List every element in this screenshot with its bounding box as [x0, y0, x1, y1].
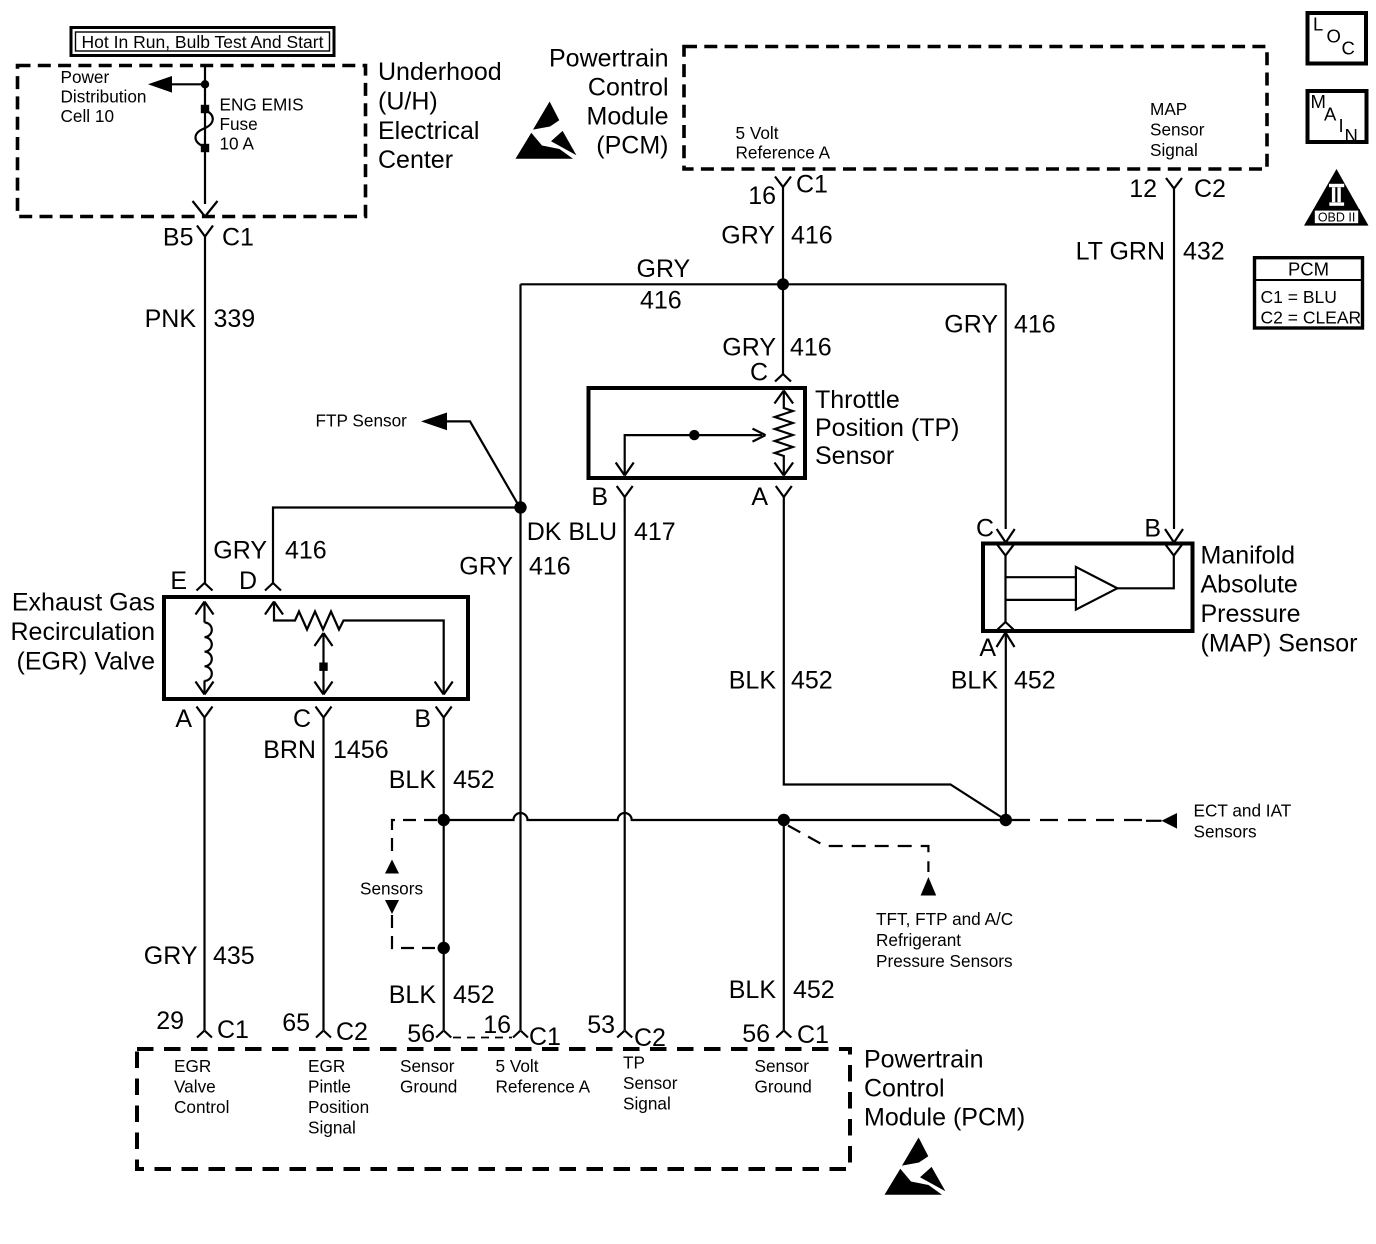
- svg-text:Underhood: Underhood: [378, 58, 502, 86]
- label GRY 416 (5V vertical): [459, 553, 570, 581]
- EGR valve box: [164, 597, 468, 699]
- wire BLK 452 (EGR B to ground bus): [443, 722, 445, 1030]
- dashed tap to ECT and IAT sensors: [1012, 819, 1146, 821]
- connector Y inside MAP pin C: [998, 545, 1014, 622]
- svg-text:A: A: [751, 483, 768, 511]
- svg-text:Reference A: Reference A: [736, 143, 831, 163]
- MAIN box: [1308, 91, 1367, 146]
- label GRY 435: [144, 942, 255, 970]
- svg-text:16: 16: [748, 182, 776, 210]
- connector pin 12 C2: [1129, 175, 1226, 203]
- svg-text:452: 452: [791, 667, 833, 695]
- svg-text:MAP: MAP: [1150, 99, 1187, 119]
- svg-text:ECT and IAT: ECT and IAT: [1194, 801, 1292, 821]
- svg-text:Sensor: Sensor: [623, 1073, 678, 1093]
- svg-text:B: B: [414, 705, 431, 733]
- svg-text:O: O: [1327, 26, 1341, 47]
- label BLK 452 (right pin 56): [729, 976, 835, 1004]
- svg-text:(PCM): (PCM): [596, 132, 668, 160]
- svg-text:ENG EMIS: ENG EMIS: [220, 95, 304, 115]
- connector pin 16 C1: [748, 171, 828, 211]
- label GRY 416 (left rail): [637, 255, 691, 315]
- svg-text:416: 416: [790, 334, 832, 362]
- svg-text:A: A: [979, 634, 996, 662]
- svg-text:TFT, FTP and A/C: TFT, FTP and A/C: [876, 909, 1013, 929]
- wire LT GRN 432 from pin 12 to MAP B: [1173, 193, 1175, 529]
- connector TP pin B: [591, 483, 632, 512]
- junction dot FTP tap: [514, 501, 526, 513]
- TP wiper arm: [616, 429, 766, 476]
- svg-text:Reference A: Reference A: [496, 1077, 591, 1097]
- PCM dashed box (bottom): [137, 1049, 850, 1169]
- LOC box: [1308, 13, 1367, 64]
- connector EGR pin C: [293, 705, 332, 733]
- arrowhead down at U/H box exit: [193, 201, 218, 217]
- svg-text:Position (TP): Position (TP): [815, 414, 959, 442]
- svg-text:Recirculation: Recirculation: [10, 618, 155, 646]
- EGR wiper: [315, 633, 333, 695]
- svg-text:LT GRN: LT GRN: [1076, 238, 1165, 266]
- svg-text:Control: Control: [864, 1075, 945, 1103]
- connector chevron inside MAP pin A: [998, 622, 1014, 630]
- svg-text:452: 452: [793, 976, 835, 1004]
- svg-text:53: 53: [587, 1011, 615, 1039]
- svg-text:Throttle: Throttle: [815, 386, 900, 414]
- label TP Sensor Signal: [623, 1053, 678, 1114]
- ground bus wire with hops: [444, 813, 1007, 820]
- svg-text:Absolute: Absolute: [1201, 571, 1298, 599]
- label LT GRN 432: [1076, 238, 1225, 266]
- svg-text:C1: C1: [222, 224, 254, 252]
- svg-text:Pintle: Pintle: [308, 1077, 351, 1097]
- svg-text:PNK: PNK: [145, 305, 197, 333]
- svg-text:56: 56: [742, 1020, 770, 1048]
- wire BLK 452 (MAP A to bus): [1005, 632, 1007, 820]
- wire TP pin C drop: [782, 284, 784, 374]
- svg-text:C1: C1: [797, 1021, 829, 1049]
- svg-text:Sensor: Sensor: [755, 1056, 810, 1076]
- svg-text:C: C: [976, 515, 994, 543]
- svg-text:GRY: GRY: [144, 942, 198, 970]
- ESD symbol (bottom): [885, 1138, 946, 1195]
- svg-text:EGR: EGR: [174, 1056, 211, 1076]
- svg-text:OBD II: OBD II: [1318, 210, 1356, 224]
- solid arrow up (sensors): [385, 860, 399, 874]
- arrowhead down into MAP pin B: [1165, 529, 1183, 543]
- svg-text:Pressure: Pressure: [1201, 600, 1301, 628]
- PCM connector legend box: [1255, 258, 1364, 328]
- solenoid coil L (EGR): [196, 602, 214, 695]
- label Underhood (U/H) Electrical Center: [378, 58, 502, 174]
- svg-text:452: 452: [1014, 667, 1056, 695]
- svg-text:BRN: BRN: [263, 736, 316, 764]
- svg-text:(U/H): (U/H): [378, 87, 438, 115]
- svg-text:PCM: PCM: [1288, 259, 1329, 280]
- junction dot bus at TP ground: [778, 814, 790, 826]
- connector chevron EGR pin D: [265, 583, 281, 591]
- junction dot bus left: [438, 814, 450, 826]
- wire BLK 452 (bus to pin 56 right): [783, 820, 785, 1030]
- wire GRY 435 (EGR A to pin 29): [203, 722, 205, 1030]
- svg-text:C: C: [1342, 38, 1355, 59]
- dashed connector tie 56-16: [453, 1037, 512, 1039]
- connector TP pin A: [751, 483, 791, 512]
- label box "Hot In Run, Bulb Test And Start": [71, 28, 334, 56]
- svg-text:E: E: [170, 567, 187, 595]
- svg-text:Valve: Valve: [174, 1077, 216, 1097]
- wire PNK 339: [204, 247, 206, 583]
- svg-text:Signal: Signal: [1150, 140, 1198, 160]
- ESD symbol (top): [516, 102, 577, 159]
- svg-text:TP: TP: [623, 1053, 645, 1073]
- svg-text:416: 416: [791, 222, 833, 250]
- svg-text:Center: Center: [378, 146, 453, 174]
- svg-text:65: 65: [282, 1009, 310, 1037]
- svg-text:416: 416: [285, 537, 327, 565]
- solid arrow down (sensors): [385, 900, 399, 914]
- label GRY 416 (EGR D): [213, 537, 326, 565]
- svg-text:FTP Sensor: FTP Sensor: [316, 411, 408, 431]
- svg-text:N: N: [1345, 125, 1358, 146]
- svg-text:Pressure Sensors: Pressure Sensors: [876, 951, 1013, 971]
- svg-text:417: 417: [634, 518, 676, 546]
- svg-text:Powertrain: Powertrain: [549, 44, 669, 72]
- svg-text:GRY: GRY: [722, 334, 776, 362]
- svg-text:Position: Position: [308, 1097, 369, 1117]
- wire GRY 416 branch to MAP pin C: [1005, 284, 1007, 529]
- svg-text:B: B: [591, 483, 608, 511]
- label BLK 452 (TP A): [729, 667, 833, 695]
- svg-text:Electrical: Electrical: [378, 117, 479, 145]
- svg-text:BLK: BLK: [729, 976, 777, 1004]
- svg-text:GRY: GRY: [637, 255, 691, 283]
- label Exhaust Gas Recirculation (EGR) Valve: [10, 589, 155, 676]
- svg-text:A: A: [1324, 104, 1337, 125]
- svg-text:GRY: GRY: [459, 553, 513, 581]
- svg-text:Fuse: Fuse: [220, 114, 258, 134]
- svg-text:EGR: EGR: [308, 1056, 345, 1076]
- connector Y inside MAP pin B: [1166, 545, 1182, 558]
- connector pin 56 C1 (sensor ground right): [742, 1020, 829, 1049]
- label Sensor Ground (left): [400, 1056, 457, 1097]
- TP sensor box: [589, 388, 806, 478]
- svg-text:Cell 10: Cell 10: [61, 106, 115, 126]
- label Manifold Absolute Pressure (MAP) Sensor: [1201, 542, 1358, 658]
- wire EGR pin D feed: [273, 508, 521, 584]
- label EGR Pintle Position Signal: [308, 1056, 369, 1138]
- label EGR Valve Control: [174, 1056, 229, 1117]
- dashed tap to other sensors (left): [392, 820, 437, 858]
- svg-text:432: 432: [1183, 238, 1225, 266]
- svg-text:Sensor: Sensor: [400, 1056, 455, 1076]
- svg-text:(EGR) Valve: (EGR) Valve: [17, 647, 155, 675]
- arrowhead up into MAP pin A: [997, 633, 1015, 648]
- connector EGR pin B: [414, 705, 451, 733]
- label GRY 416 (right branch): [944, 311, 1055, 339]
- pintle resistor R (EGR): [265, 602, 453, 695]
- svg-text:Ground: Ground: [755, 1077, 812, 1097]
- svg-text:C2 = CLEAR: C2 = CLEAR: [1261, 307, 1362, 327]
- connector pin 29 C1: [156, 1007, 249, 1044]
- svg-text:C2: C2: [1194, 175, 1226, 203]
- svg-text:10 A: 10 A: [220, 134, 255, 154]
- connector chevron TP pin C: [775, 374, 791, 382]
- arrowhead down into MAP pin C: [997, 529, 1015, 543]
- wire DK BLU 417: [624, 512, 626, 1030]
- solid arrow (ECT IAT): [1162, 813, 1178, 829]
- Underhood Electrical Center dashed box: [18, 66, 366, 217]
- junction dot bus at MAP ground: [1000, 814, 1012, 826]
- label DK BLU 417: [527, 518, 676, 546]
- svg-text:416: 416: [1014, 311, 1056, 339]
- PCM dashed box (top): [684, 47, 1267, 170]
- wire to Power Distribution: [152, 83, 205, 85]
- svg-text:BLK: BLK: [389, 766, 437, 794]
- svg-text:Signal: Signal: [623, 1094, 671, 1114]
- connector pin 16 C1 (bottom): [483, 1011, 561, 1051]
- svg-text:C1: C1: [796, 171, 828, 199]
- svg-text:C1: C1: [529, 1023, 561, 1051]
- wire 5V reference horizontal rail: [521, 283, 1006, 285]
- svg-text:Control: Control: [174, 1097, 229, 1117]
- svg-text:Manifold: Manifold: [1201, 542, 1296, 570]
- svg-text:Sensors: Sensors: [360, 879, 423, 899]
- svg-text:339: 339: [214, 305, 256, 333]
- svg-text:Module (PCM): Module (PCM): [864, 1104, 1025, 1132]
- svg-text:C: C: [750, 359, 768, 387]
- OBD II symbol: [1304, 169, 1369, 226]
- svg-text:D: D: [239, 567, 257, 595]
- MAP sensor box: [983, 544, 1193, 632]
- op-amp U (MAP): [1006, 558, 1174, 610]
- svg-text:5 Volt: 5 Volt: [736, 123, 779, 143]
- svg-text:416: 416: [640, 287, 682, 315]
- svg-text:GRY: GRY: [213, 537, 267, 565]
- wire GRY 416 vertical (5V ref to pin 16 bottom): [519, 284, 521, 1030]
- label TFT, FTP and A/C Refrigerant Pressure Sensors: [876, 909, 1013, 971]
- svg-text:C1 = BLU: C1 = BLU: [1261, 287, 1337, 307]
- svg-text:DK BLU: DK BLU: [527, 518, 617, 546]
- wire GRY 416 from pin 16: [782, 193, 784, 284]
- label 5 Volt Reference A (in PCM box): [736, 123, 831, 163]
- svg-text:Powertrain: Powertrain: [864, 1046, 984, 1074]
- label ENG EMIS Fuse 10 A: [220, 95, 304, 154]
- svg-text:BLK: BLK: [951, 667, 999, 695]
- svg-text:B: B: [1144, 515, 1161, 543]
- solid arrow left (FTP sensor): [421, 413, 447, 431]
- svg-text:Power: Power: [61, 67, 110, 87]
- svg-text:Sensor: Sensor: [1150, 120, 1205, 140]
- svg-text:BLK: BLK: [729, 667, 777, 695]
- wire BRN 1456 (EGR C to pin 65): [322, 722, 324, 1030]
- junction dot sensors lower: [438, 942, 450, 954]
- svg-text:452: 452: [453, 766, 495, 794]
- svg-text:Signal: Signal: [308, 1118, 356, 1138]
- connector chevron EGR pin E: [197, 583, 213, 591]
- label GRY 416: [721, 222, 832, 250]
- svg-text:1456: 1456: [333, 736, 389, 764]
- svg-text:452: 452: [453, 981, 495, 1009]
- label BLK 452 (upper): [389, 766, 495, 794]
- svg-text:GRY: GRY: [944, 311, 998, 339]
- svg-text:A: A: [175, 705, 192, 733]
- label Power Distribution Cell 10: [61, 67, 147, 126]
- connector pin 53 C2: [587, 1011, 666, 1052]
- svg-text:5 Volt: 5 Volt: [496, 1056, 539, 1076]
- connector pin B5 C1: [163, 224, 254, 252]
- svg-text:435: 435: [213, 942, 255, 970]
- junction node on rail: [777, 278, 789, 290]
- svg-text:B5: B5: [163, 224, 194, 252]
- wire FTP tap: [445, 421, 520, 507]
- svg-text:(MAP) Sensor: (MAP) Sensor: [1201, 630, 1358, 658]
- label Powertrain Control Module (PCM): [549, 44, 669, 159]
- svg-text:29: 29: [156, 1007, 184, 1035]
- svg-text:C2: C2: [336, 1018, 368, 1046]
- potentiometer R (TP): [775, 391, 794, 476]
- svg-text:12: 12: [1129, 175, 1157, 203]
- svg-text:BLK: BLK: [389, 981, 437, 1009]
- solid arrow up (TFT tap): [921, 877, 937, 896]
- svg-text:56: 56: [407, 1020, 435, 1048]
- label 5 Volt Reference A (bottom): [496, 1056, 591, 1097]
- label PNK 339: [145, 305, 256, 333]
- solid arrow left (Power Distribution): [148, 76, 172, 93]
- svg-text:C: C: [293, 705, 311, 733]
- svg-text:416: 416: [529, 553, 571, 581]
- connector pin 56 (sensor ground left): [407, 1020, 451, 1048]
- svg-text:L: L: [1313, 14, 1323, 35]
- svg-text:Hot In Run, Bulb Test And Star: Hot In Run, Bulb Test And Start: [82, 32, 324, 52]
- dashed tap lower: [392, 915, 437, 948]
- svg-text:Distribution: Distribution: [61, 87, 147, 107]
- svg-text:C1: C1: [217, 1016, 249, 1044]
- label Powertrain Control Module (PCM) bottom: [864, 1046, 1025, 1132]
- connector EGR pin A: [175, 705, 212, 733]
- connector pin 65 C2: [282, 1009, 368, 1046]
- svg-text:Sensor: Sensor: [815, 442, 894, 470]
- label BLK 452 (MAP A): [951, 667, 1056, 695]
- svg-text:16: 16: [483, 1011, 511, 1039]
- svg-text:Sensors: Sensors: [1194, 822, 1257, 842]
- svg-text:Control: Control: [588, 73, 669, 101]
- label Sensor Ground (right): [755, 1056, 812, 1097]
- svg-text:Ground: Ground: [400, 1077, 457, 1097]
- svg-text:GRY: GRY: [721, 222, 775, 250]
- label BLK 452 (lower): [389, 981, 495, 1009]
- svg-text:Module: Module: [587, 103, 669, 131]
- junction dot: [201, 80, 209, 88]
- label GRY 416 (TP pin C): [722, 334, 831, 362]
- svg-text:I: I: [1339, 115, 1344, 136]
- svg-text:Refrigerant: Refrigerant: [876, 930, 961, 950]
- fuse F ENG EMIS 10A: [196, 105, 213, 152]
- label ECT and IAT Sensors: [1194, 801, 1292, 842]
- wire battery feed vertical: [204, 66, 206, 205]
- label Throttle Position (TP) Sensor: [815, 386, 959, 470]
- label BRN 1456: [263, 736, 388, 764]
- svg-text:Exhaust Gas: Exhaust Gas: [12, 589, 155, 617]
- dashed tap to TFT FTP AC sensors: [788, 826, 928, 873]
- label MAP Sensor Signal (in PCM box): [1150, 99, 1205, 160]
- wire BLK 452 (TP A to bus): [784, 512, 1006, 820]
